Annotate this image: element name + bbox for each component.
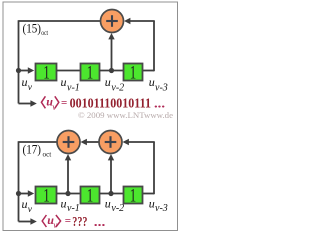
- wire: register 5 to register 6: [100, 193, 124, 195]
- wire: XOR U3 output into XOR U2: [84, 141, 100, 143]
- svg-text:u: u: [61, 196, 67, 210]
- wire: left vertical down to output corner: [18, 141, 20, 221]
- svg-text:u: u: [149, 75, 155, 89]
- svg-text:(17): (17): [23, 143, 42, 157]
- wire: feedback riser: [153, 142, 155, 194]
- node C: register input junction: [16, 191, 21, 196]
- output sequence text 2: [42, 213, 105, 230]
- arrowhead into XOR U3 from right: [123, 139, 129, 145]
- svg-text:u: u: [61, 75, 67, 89]
- label u_v-2 lower: [105, 196, 124, 214]
- wire: feedback top into XOR U3: [127, 141, 155, 143]
- wire: left vertical down to output corner: [18, 20, 20, 103]
- XOR adder U2: [57, 131, 80, 154]
- register D6: [124, 186, 143, 206]
- label u_v lower: [22, 197, 33, 215]
- label (17)oct: [23, 143, 53, 159]
- arrowhead into register 1: [28, 67, 34, 73]
- svg-text:???: ???: [72, 215, 87, 230]
- svg-text:ν-2: ν-2: [111, 83, 124, 94]
- wire: feedback from register 3 to riser: [143, 70, 155, 72]
- XOR adder U1: [101, 10, 124, 33]
- svg-text:oct: oct: [41, 29, 48, 37]
- wire: feedback top into XOR U1: [128, 20, 155, 22]
- arrowhead into XOR U1 from below: [108, 33, 114, 39]
- register D3: [124, 63, 143, 83]
- label u_v-3: [149, 75, 168, 94]
- svg-text:u: u: [22, 197, 28, 211]
- svg-text:=: =: [61, 97, 67, 109]
- register D5: [81, 186, 100, 206]
- node A: register input junction: [16, 68, 21, 73]
- wire: node C to register 4: [19, 193, 30, 195]
- svg-text:1: 1: [43, 186, 49, 206]
- node B: tap junction u(v-2): [109, 68, 114, 73]
- svg-text:ν-3: ν-3: [155, 203, 168, 214]
- svg-text:1: 1: [87, 186, 93, 206]
- svg-text:u: u: [105, 75, 111, 89]
- svg-text:ν-1: ν-1: [67, 203, 80, 214]
- svg-text:00101110010111: 00101110010111: [70, 96, 151, 111]
- label u_v-2: [105, 75, 124, 94]
- svg-text:1: 1: [130, 186, 136, 206]
- svg-text:1: 1: [87, 63, 93, 83]
- register D4: [36, 186, 57, 206]
- wire: tap u(v-2) up to XOR U1: [111, 37, 113, 71]
- arrowhead into XOR U3 from below: [108, 154, 114, 160]
- wire: node A to register 1: [19, 70, 30, 72]
- wire: output down-right lower: [19, 221, 32, 223]
- wire: register 4 to register 5: [57, 193, 81, 195]
- svg-text:ν-2: ν-2: [111, 203, 124, 214]
- svg-text:oct: oct: [43, 150, 53, 159]
- svg-text:u: u: [149, 196, 155, 210]
- svg-text:...: ...: [94, 215, 106, 229]
- label u_v-1: [61, 75, 80, 94]
- register D1: [36, 63, 57, 83]
- svg-text:u: u: [22, 75, 28, 89]
- svg-text:u: u: [105, 196, 111, 210]
- arrowhead into XOR U1 from right: [124, 18, 130, 24]
- svg-text:...: ...: [154, 97, 165, 111]
- label u_v-1 lower: [61, 196, 80, 214]
- arrowhead into register 4: [28, 190, 34, 196]
- svg-text:(15): (15): [23, 22, 42, 36]
- svg-text:© 2009 www.LNTwww.de: © 2009 www.LNTwww.de: [78, 110, 173, 120]
- wire: register 2 to register 3: [100, 70, 124, 72]
- outer frame: [3, 2, 178, 231]
- node D: tap junction u(v-1): [65, 191, 70, 196]
- wire: XOR U1 output left along top: [19, 20, 102, 22]
- svg-text:1: 1: [43, 63, 49, 83]
- wire: feedback from register 6: [143, 193, 155, 195]
- wire: XOR U2 output left: [19, 141, 58, 143]
- arrowhead output sequence: [30, 100, 36, 106]
- XOR adder U3: [99, 131, 122, 154]
- node E: tap junction u(v-2): [108, 191, 113, 196]
- wire: tap u(v-2) up to XOR U3: [110, 158, 112, 194]
- arrowhead into XOR U2 from right: [81, 139, 87, 145]
- svg-text:ν-3: ν-3: [155, 83, 168, 94]
- svg-text:1: 1: [130, 63, 136, 83]
- output sequence text 1: [41, 95, 165, 112]
- wire: output down-right: [19, 103, 32, 105]
- svg-text:ν-1: ν-1: [67, 83, 80, 94]
- arrowhead output sequence lower: [30, 218, 36, 224]
- wire: register 1 to register 2: [57, 70, 81, 72]
- wire: tap u(v-1) up to XOR U2: [67, 158, 69, 194]
- svg-text:=: =: [65, 215, 71, 227]
- arrowhead into XOR U2 from below: [65, 154, 71, 160]
- label u_v: [22, 75, 33, 93]
- wire: feedback riser: [153, 21, 155, 71]
- label (15)oct: [23, 22, 49, 38]
- register D2: [81, 63, 100, 83]
- label u_v-3 lower: [149, 196, 168, 214]
